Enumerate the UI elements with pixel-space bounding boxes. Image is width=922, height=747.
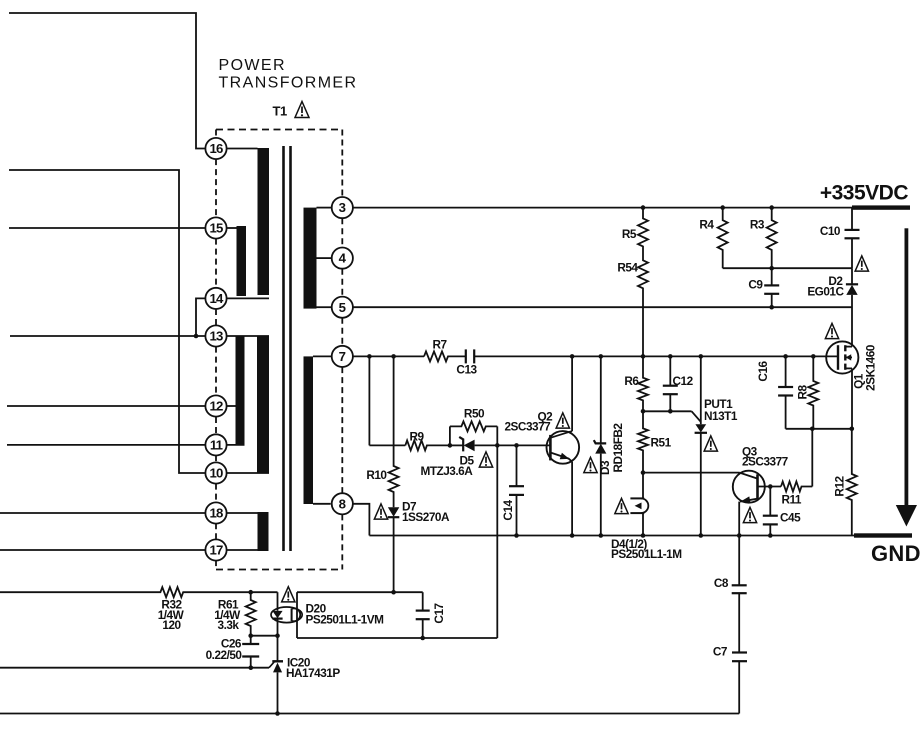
junction rail/R5 bbox=[641, 205, 646, 210]
junction rail3/D3 bbox=[599, 354, 604, 359]
pin 7 bbox=[332, 346, 353, 367]
svg-text:0.22/50: 0.22/50 bbox=[206, 648, 243, 662]
svg-text:PS2501L1-1VM: PS2501L1-1VM bbox=[306, 613, 385, 627]
svg-text:C10: C10 bbox=[820, 224, 841, 238]
svg-text:TRANSFORMER: TRANSFORMER bbox=[219, 75, 358, 92]
junction rail/R4 bbox=[720, 205, 725, 210]
warning symbol near Q3 bbox=[743, 507, 756, 522]
svg-text:N13T1: N13T1 bbox=[704, 409, 738, 423]
PUT1 value N13T1 bbox=[704, 409, 738, 423]
resistor R50 bypass bbox=[450, 421, 497, 445]
svg-text:1SS270A: 1SS270A bbox=[402, 510, 450, 524]
resistor R32 label bbox=[161, 598, 182, 612]
svg-text:8: 8 bbox=[339, 496, 346, 511]
svg-text:7: 7 bbox=[339, 349, 346, 364]
junction D4/GND bbox=[641, 533, 646, 538]
resistor R10 label bbox=[366, 468, 387, 482]
pin 5 bbox=[332, 297, 353, 318]
junction IC20/bottom line bbox=[275, 711, 280, 716]
opto D4 value PS2501L1-1M bbox=[611, 547, 682, 561]
resistor R4 label bbox=[699, 218, 714, 232]
wire branch down to R9 bbox=[368, 356, 370, 445]
capacitor C26 value 0.22/50 bbox=[206, 648, 243, 662]
svg-text:18: 18 bbox=[209, 506, 223, 521]
pin 11 bbox=[205, 434, 226, 455]
wire to pin 10 (second stub) bbox=[9, 170, 205, 473]
svg-text:R11: R11 bbox=[782, 493, 802, 507]
opto D4 label bbox=[611, 537, 647, 551]
svg-text:2SC3377: 2SC3377 bbox=[742, 455, 789, 469]
junction C12 bottom bbox=[668, 409, 673, 414]
svg-text:R50: R50 bbox=[464, 407, 485, 421]
warning symbol at T1 bbox=[295, 102, 309, 118]
diode D7 value 1SS270A bbox=[402, 510, 450, 524]
svg-text:R4: R4 bbox=[699, 218, 714, 232]
resistor R12 bbox=[847, 429, 857, 536]
wire with R32 from left edge bbox=[0, 587, 278, 597]
+335VDC label bbox=[820, 182, 908, 205]
junction C14/GND bbox=[514, 533, 519, 538]
junction R61 bottom bbox=[248, 633, 253, 638]
svg-text:120: 120 bbox=[162, 618, 181, 632]
zener diode D3 RD18FB2 bbox=[594, 356, 607, 535]
resistor R6 label bbox=[624, 374, 639, 388]
svg-text:MTZJ3.6A: MTZJ3.6A bbox=[421, 464, 474, 478]
capacitor C7 label bbox=[713, 644, 728, 658]
wire R11 riser to source node bbox=[811, 429, 813, 487]
junction R6/PUT gate wire bbox=[641, 409, 646, 414]
resistor R7 label bbox=[432, 338, 447, 352]
svg-text:13: 13 bbox=[209, 329, 223, 344]
junction C26/bottom line bbox=[249, 665, 254, 670]
junction C9/rail2 bbox=[769, 305, 774, 310]
resistor R11 label bbox=[782, 493, 802, 507]
resistor R61 wattage bbox=[214, 608, 241, 622]
junction rail3/R6 bbox=[641, 354, 646, 359]
MOSFET Q1 2SK1460 bbox=[826, 307, 858, 429]
junction rail3/R9 branch bbox=[367, 354, 372, 359]
resistor R9 label bbox=[409, 430, 424, 444]
capacitor C26 label bbox=[221, 637, 242, 651]
pin 13 stub to winding bbox=[227, 335, 269, 337]
resistor R5 label bbox=[622, 227, 637, 241]
svg-text:R10: R10 bbox=[366, 468, 387, 482]
junction rail/R3 bbox=[769, 205, 774, 210]
pin 10 bbox=[205, 462, 226, 483]
pin 16 stub to winding bbox=[227, 148, 258, 150]
GND rail bbox=[369, 535, 854, 537]
capacitor C8 bbox=[732, 536, 747, 653]
pin 12 stub to winding bbox=[227, 405, 236, 407]
pin 10 stub to winding bbox=[227, 472, 269, 474]
junction D7 line/box top bbox=[391, 590, 396, 595]
svg-text:2SK1460: 2SK1460 bbox=[864, 344, 878, 391]
pin 16 bbox=[205, 138, 226, 159]
svg-text:C16: C16 bbox=[756, 360, 770, 381]
junction R3/C9 bbox=[769, 266, 774, 271]
capacitor C9 label bbox=[748, 278, 763, 292]
wire C26 bottom line from left edge bbox=[0, 667, 269, 669]
svg-text:3.3k: 3.3k bbox=[218, 618, 240, 632]
primary winding bar (pins 16-14) bbox=[258, 148, 270, 295]
diode D2 label bbox=[828, 274, 843, 288]
bottom return wire bbox=[0, 713, 739, 715]
resistor R54 bbox=[638, 251, 648, 356]
pin 3 bbox=[332, 197, 353, 218]
opto-transistor D4 (1/2 PS2501L1-1M) bbox=[630, 473, 648, 536]
resistor R6 bbox=[638, 356, 648, 411]
svg-text:16: 16 bbox=[209, 141, 223, 156]
pin 11 stub to winding bbox=[227, 444, 245, 446]
svg-text:10: 10 bbox=[209, 466, 223, 481]
junction rail3/PUT1 bbox=[699, 354, 704, 359]
svg-text:C13: C13 bbox=[456, 363, 477, 377]
capacitor C45 bbox=[763, 487, 778, 536]
resistor R11 bbox=[781, 482, 812, 492]
svg-text:R54: R54 bbox=[617, 261, 638, 275]
MOSFET Q1 label bbox=[852, 373, 866, 389]
svg-text:C12: C12 bbox=[673, 374, 694, 388]
opto D20 label bbox=[306, 602, 327, 616]
primary winding bar (pins 13-11) bbox=[236, 336, 245, 445]
svg-text:R5: R5 bbox=[622, 227, 637, 241]
wire R51 bottom to Q3 base bbox=[643, 472, 740, 474]
capacitor C17 label bbox=[432, 602, 446, 623]
warning symbol near D20 bbox=[282, 587, 295, 602]
resistor R3 label bbox=[750, 218, 765, 232]
transistor Q2 label bbox=[538, 410, 554, 424]
svg-text:17: 17 bbox=[209, 543, 223, 558]
junction rail3/Q2 collector bbox=[570, 354, 575, 359]
junction C17 bottom/box bbox=[420, 636, 425, 641]
resistor R51 label bbox=[651, 436, 672, 450]
title POWER TRANSFORMER bbox=[219, 57, 358, 92]
resistor R32 wattage bbox=[158, 608, 185, 622]
svg-text:C8: C8 bbox=[714, 576, 729, 590]
wire R9 lead bbox=[369, 444, 405, 446]
resistor R3 bbox=[767, 208, 777, 269]
wire C13 to Q1 gate bbox=[474, 355, 838, 357]
resistor R51 bbox=[638, 411, 648, 472]
capacitor C26 bbox=[242, 636, 259, 668]
pin 17 stub to winding bbox=[227, 549, 269, 551]
pin 15 stub to winding bbox=[227, 227, 237, 229]
capacitor C45 label bbox=[780, 511, 801, 525]
junction LED cathode tee bbox=[275, 633, 280, 638]
resistor R54 label bbox=[617, 261, 638, 275]
wire to pin 12 bbox=[7, 405, 205, 407]
diode D7 label bbox=[402, 500, 417, 514]
diode D2 bbox=[846, 268, 858, 307]
GND label bbox=[871, 541, 921, 566]
junction base wire/R50 riser bbox=[495, 443, 500, 448]
svg-text:C17: C17 bbox=[432, 602, 446, 623]
svg-text:15: 15 bbox=[209, 221, 223, 236]
svg-text:R8: R8 bbox=[795, 385, 809, 400]
pin 4 stub to winding bbox=[317, 257, 332, 259]
zener D5 value MTZJ3.6A bbox=[421, 464, 474, 478]
resistor R5 bbox=[638, 208, 648, 251]
primary winding bar (pins 18-17) bbox=[258, 512, 269, 551]
pin 8 bbox=[332, 493, 353, 514]
warning symbol near C10 bbox=[855, 256, 868, 271]
pin 18 stub to winding bbox=[227, 512, 258, 514]
junction Q3 emitter/GND bbox=[737, 533, 742, 538]
MOSFET Q1 value 2SK1460 bbox=[864, 344, 878, 391]
capacitor C13 label bbox=[456, 363, 477, 377]
capacitor C13 bbox=[466, 349, 474, 363]
svg-text:R7: R7 bbox=[432, 338, 447, 352]
warning symbol near Q2 bbox=[556, 413, 569, 428]
capacitor C10 label bbox=[820, 224, 841, 238]
pin 15 bbox=[205, 217, 226, 238]
wire to pin 17 bbox=[0, 549, 205, 551]
wire R6 bottom to PUT1 gate bbox=[643, 410, 692, 412]
transformer T1 dashed outline bbox=[216, 130, 342, 570]
pin 12 bbox=[205, 395, 226, 416]
junction riser/source wire bbox=[810, 427, 815, 432]
diode D2 value EG01C bbox=[807, 284, 844, 298]
svg-text:R3: R3 bbox=[750, 218, 765, 232]
zener D3 value RD18FB2 bbox=[611, 423, 625, 473]
junction rail3/C12 bbox=[668, 354, 673, 359]
zener D5 label bbox=[460, 454, 475, 468]
primary winding bar (pins 15-14) bbox=[237, 226, 247, 296]
capacitor C10 bbox=[845, 208, 860, 269]
junction rail3/R10 branch bbox=[391, 354, 396, 359]
wire D5 to Q2 base bbox=[497, 444, 550, 446]
wire box bottom riser to D5 node bbox=[496, 426, 498, 638]
junction base wire/C14 bbox=[514, 443, 519, 448]
svg-text:R51: R51 bbox=[651, 436, 672, 450]
opto coupler box outline bbox=[297, 592, 497, 638]
warning symbol near D3 bbox=[584, 457, 597, 472]
capacitor C9 bbox=[764, 268, 779, 307]
wire LED cathode to R61 node bbox=[251, 635, 278, 637]
wire to pin 16 (top left) bbox=[9, 13, 205, 149]
svg-text:5: 5 bbox=[339, 300, 346, 315]
warning symbol near D4 bbox=[615, 498, 628, 513]
capacitor C12 label bbox=[673, 374, 694, 388]
junction R32 line/R61 bbox=[248, 590, 253, 595]
pin 7 stub to winding bbox=[313, 355, 332, 357]
+335VDC thick bus bar bbox=[852, 205, 910, 209]
junction Q2 emitter/GND bbox=[570, 533, 575, 538]
diode D7 1SS270A bbox=[388, 507, 399, 592]
resistor R4 bbox=[718, 208, 728, 269]
zener D3 label bbox=[598, 460, 612, 475]
svg-text:C14: C14 bbox=[501, 499, 515, 520]
resistor R7 bbox=[424, 351, 466, 361]
IC20 value HA17431P bbox=[286, 666, 340, 680]
pin 5 stub to winding bbox=[317, 306, 332, 308]
junction R9/R50/D5 bbox=[448, 443, 453, 448]
capacitor C17 (on box edge) bbox=[416, 611, 430, 620]
svg-text:R12: R12 bbox=[832, 475, 846, 496]
transistor Q3 label bbox=[742, 445, 758, 459]
capacitor C8 label bbox=[714, 576, 729, 590]
pin 13 bbox=[205, 325, 226, 346]
junction R51/Q3 base wire bbox=[641, 470, 646, 475]
wire pin 8 to GND rail bbox=[352, 504, 369, 536]
junction rail3/R8 bbox=[811, 354, 816, 359]
secondary winding bar (pins 7-8) bbox=[304, 356, 314, 504]
junction rail3/C16 bbox=[783, 354, 788, 359]
svg-text:T1: T1 bbox=[273, 104, 287, 119]
pin 3 stub to winding bbox=[317, 207, 332, 209]
junction source wire/R12 bbox=[850, 427, 855, 432]
svg-text:C7: C7 bbox=[713, 644, 728, 658]
transistor Q3 2SC3377 bbox=[733, 471, 781, 536]
transistor Q2 value 2SC3377 bbox=[505, 420, 552, 434]
pin 14 bbox=[205, 288, 226, 309]
resistor R61 value 3.3k bbox=[218, 618, 240, 632]
capacitor C16 bbox=[778, 356, 793, 428]
wire rail from pin 5 to D2 bbox=[353, 306, 852, 308]
resistor R61 label bbox=[218, 598, 239, 612]
wire to pin 15 bbox=[9, 227, 205, 229]
pin 17 bbox=[205, 539, 226, 560]
primary winding bar (pins 13-10) bbox=[257, 336, 269, 473]
warning symbol near Q1 bbox=[825, 323, 838, 338]
wire to pin 13 bbox=[10, 335, 205, 337]
pin 18 bbox=[205, 502, 226, 523]
svg-text:POWER: POWER bbox=[219, 57, 286, 74]
wire source node horizontal bbox=[786, 428, 852, 430]
wire to pin 18 bbox=[0, 512, 205, 514]
warning symbol near D7 bbox=[374, 504, 387, 519]
shunt regulator IC20 HA17431P bbox=[269, 636, 283, 714]
pin 14 stub to winding bbox=[227, 297, 269, 299]
svg-text:14: 14 bbox=[209, 291, 224, 306]
svg-text:11: 11 bbox=[210, 438, 223, 453]
GND thick bus bar bbox=[854, 533, 912, 537]
svg-text:R9: R9 bbox=[409, 430, 424, 444]
svg-text:C45: C45 bbox=[780, 511, 801, 525]
svg-text:R6: R6 bbox=[624, 374, 639, 388]
resistor R61 bbox=[246, 592, 256, 636]
transistor Q2 2SC3377 bbox=[547, 356, 580, 535]
svg-text:RD18FB2: RD18FB2 bbox=[611, 423, 625, 473]
svg-text:GND: GND bbox=[871, 541, 921, 566]
capacitor C12 bbox=[663, 356, 678, 411]
svg-text:4: 4 bbox=[339, 251, 347, 266]
wire pin 7 to R7 bbox=[352, 355, 424, 357]
capacitor C14 label bbox=[501, 499, 515, 520]
thick vertical bus with arrow to GND bbox=[896, 228, 917, 526]
resistor R8 label bbox=[795, 385, 809, 400]
junction D3/GND bbox=[599, 533, 604, 538]
svg-text:2SC3377: 2SC3377 bbox=[505, 420, 552, 434]
resistor R10 bbox=[389, 356, 399, 507]
pin 8 stub to winding bbox=[313, 503, 331, 505]
zener diode D5 bbox=[450, 437, 497, 452]
svg-text:C9: C9 bbox=[748, 278, 763, 292]
warning symbol near D5 bbox=[479, 452, 492, 467]
resistor R9 bbox=[405, 440, 450, 450]
opto D20 value PS2501L1-1VM bbox=[306, 613, 385, 627]
svg-text:12: 12 bbox=[209, 399, 223, 414]
junction PUT1/GND bbox=[699, 533, 704, 538]
svg-text:PS2501L1-1M: PS2501L1-1M bbox=[611, 547, 682, 561]
wire R4/R3 bottoms to C10 node bbox=[723, 267, 852, 269]
resistor R50 label bbox=[464, 407, 485, 421]
opto LED D20 (PS2501L1-1VM) bbox=[271, 592, 302, 636]
svg-text:+335VDC: +335VDC bbox=[820, 182, 908, 205]
wire to pin 11 bbox=[7, 444, 205, 446]
svg-text:D3: D3 bbox=[598, 460, 612, 475]
resistor R8 bbox=[808, 356, 818, 428]
wire +335VDC rail from pin 3 bbox=[353, 207, 852, 209]
transformer T1 label bbox=[273, 104, 287, 119]
wire jog pin 14 to pin-13 line bbox=[196, 298, 205, 336]
capacitor C14 bbox=[509, 445, 524, 535]
junction C45 top bbox=[768, 484, 773, 489]
transistor Q3 value 2SC3377 bbox=[742, 455, 789, 469]
transformer core lines bbox=[284, 146, 291, 551]
junction at pin14 jog bbox=[194, 334, 199, 339]
svg-text:EG01C: EG01C bbox=[807, 284, 844, 298]
svg-text:3: 3 bbox=[339, 200, 346, 215]
PUT1 label bbox=[704, 397, 733, 411]
svg-text:HA17431P: HA17431P bbox=[286, 666, 340, 680]
pin 4 bbox=[332, 248, 353, 269]
secondary winding bar (pins 3-5) bbox=[304, 208, 317, 309]
capacitor C7 bbox=[732, 653, 747, 714]
capacitor C16 label bbox=[756, 360, 770, 381]
PUT1 N13T1 bbox=[692, 356, 707, 535]
junction C45/GND bbox=[768, 533, 773, 538]
warning symbol near PUT1 bbox=[704, 436, 717, 451]
IC20 label bbox=[287, 655, 311, 669]
resistor R12 label bbox=[832, 475, 846, 496]
resistor R32 value 120 bbox=[162, 618, 181, 632]
